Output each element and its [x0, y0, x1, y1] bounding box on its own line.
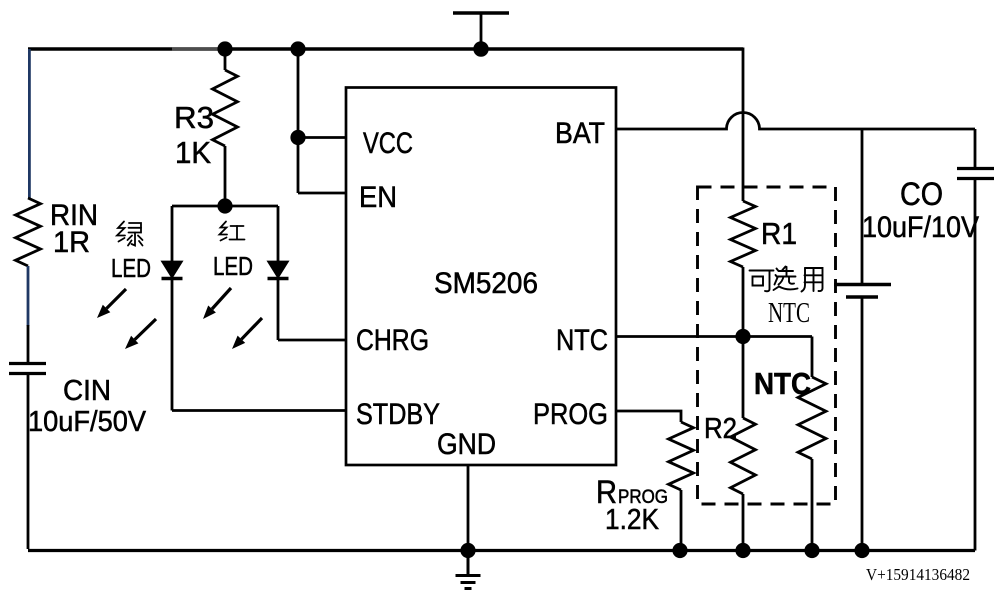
- wire NTC pin line: [616, 335, 812, 338]
- wire BAT line with hop: [616, 113, 975, 130]
- node junction dot R3 to LED bracket: [217, 198, 232, 213]
- svg-text:CO: CO: [900, 176, 943, 212]
- wire left input (blue segment upper): [28, 49, 31, 198]
- node junction dot RPROG on rail: [672, 543, 687, 558]
- wire NTC branch down: [811, 337, 814, 378]
- svg-text:VCC: VCC: [363, 127, 413, 160]
- capacitor CO: [957, 169, 994, 179]
- svg-text:10uF/10V: 10uF/10V: [862, 211, 979, 244]
- node junction dot R2 on rail: [735, 543, 750, 558]
- wire left input to CIN: [27, 325, 30, 362]
- svg-text:1R: 1R: [53, 226, 90, 259]
- wire battery top: [861, 129, 864, 283]
- svg-text:10uF/50V: 10uF/50V: [28, 406, 147, 438]
- optional NTC dashed enclosure: [698, 187, 836, 504]
- battery cell: [834, 285, 891, 298]
- wire VCC / EN feed: [298, 49, 346, 193]
- svg-text:CIN: CIN: [63, 375, 111, 407]
- label optional text 可: [750, 271, 774, 292]
- resistor R2: [731, 418, 756, 494]
- wire top rail down to R1: [742, 48, 745, 202]
- svg-text:EN: EN: [359, 181, 397, 214]
- resistor R3: [213, 50, 238, 205]
- node junction dot GND on rail: [460, 543, 475, 558]
- wire LED anode bracket: [172, 205, 278, 208]
- wire NTC resistor to rail: [811, 459, 814, 551]
- wire R2 to rail: [742, 494, 745, 551]
- capacitor CIN: [9, 364, 46, 374]
- svg-text:SM5206: SM5206: [434, 267, 538, 300]
- node junction dot VCC / EN split: [290, 130, 305, 145]
- svg-text:PROG: PROG: [533, 398, 608, 431]
- wire RPROG to rail: [680, 490, 683, 551]
- node junction dot battery on rail: [854, 543, 869, 558]
- label red Chinese glyph 红: [220, 222, 245, 241]
- label green Chinese glyph 绿: [117, 222, 143, 246]
- power flag symbol: [453, 13, 509, 49]
- node junction dot R3 on rail: [217, 41, 232, 56]
- wire left input (blue segment lower): [27, 266, 30, 326]
- svg-text:NTC: NTC: [768, 297, 810, 329]
- arrow LED green 1: [97, 289, 126, 318]
- svg-text:R1: R1: [761, 216, 797, 251]
- wire CO to bottom rail: [974, 180, 977, 551]
- svg-text:R2: R2: [704, 413, 737, 445]
- ground symbol: [456, 551, 481, 589]
- svg-text:NTC: NTC: [556, 324, 608, 357]
- node junction dot VCC feed on rail: [290, 41, 305, 56]
- wire top supply rail: [28, 47, 743, 51]
- resistor NTC: [798, 377, 826, 459]
- wire GND pin to rail: [467, 465, 470, 551]
- wire CIN to bottom rail: [27, 375, 30, 549]
- LED green (left): [162, 206, 183, 411]
- svg-text:LED: LED: [213, 251, 253, 281]
- svg-text:V+15914136482: V+15914136482: [866, 565, 970, 584]
- arrow LED green 2: [125, 319, 156, 349]
- svg-text:GND: GND: [437, 428, 496, 461]
- wire PROG pin line: [616, 411, 681, 422]
- resistor R1: [731, 201, 756, 267]
- wire CHRG to LED red: [278, 339, 346, 342]
- svg-text:BAT: BAT: [555, 117, 605, 150]
- svg-text:R3: R3: [174, 100, 214, 135]
- resistor RIN: [16, 198, 41, 266]
- svg-text:LED: LED: [111, 253, 151, 283]
- node junction dot power flag on rail: [473, 41, 488, 56]
- svg-text:STDBY: STDBY: [356, 398, 440, 431]
- label optional text 用: [802, 268, 823, 292]
- svg-text:NTC: NTC: [754, 366, 811, 401]
- resistor RPROG: [669, 422, 694, 490]
- label optional text 选: [774, 267, 798, 291]
- wire bottom ground rail: [28, 549, 975, 552]
- LED red (right): [268, 206, 289, 340]
- wire NTC node to R2: [742, 337, 745, 419]
- wire CO drop: [974, 129, 977, 167]
- svg-text:1.2K: 1.2K: [605, 504, 660, 536]
- node junction dot NTC net: [735, 329, 750, 344]
- op-amp U1 SM5206 body: [346, 88, 616, 466]
- wire STDBY to LED green: [172, 409, 346, 412]
- arrow LED red 2: [232, 318, 262, 349]
- wire battery to rail: [861, 298, 864, 551]
- node junction dot NTC on rail: [804, 543, 819, 558]
- arrow LED red 1: [203, 288, 231, 319]
- wire R1 to NTC node: [742, 267, 745, 337]
- svg-text:1K: 1K: [175, 135, 211, 170]
- svg-text:CHRG: CHRG: [356, 324, 429, 357]
